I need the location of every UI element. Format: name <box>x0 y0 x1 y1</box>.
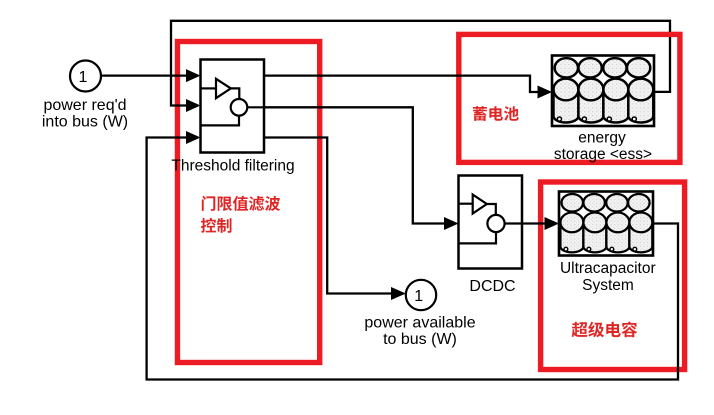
red annotation box: battery (ess) <box>459 34 680 162</box>
DCDC icon: link to circle <box>487 204 496 215</box>
block: Ultracapacitor System <box>559 192 653 256</box>
arrowhead into Ultracapacitor <box>545 217 560 230</box>
DCDC icon: triangle <box>473 195 487 214</box>
DCDC icon: feedback line <box>459 232 497 243</box>
arrowhead into Threshold in1 <box>186 69 201 82</box>
arrowhead into battery <box>538 86 553 99</box>
wire: In1 to Threshold in1 <box>102 74 189 76</box>
red text: battery <box>473 106 519 121</box>
wire: Threshold out3 to Out1 port <box>264 138 393 294</box>
wire: battery output feedback loop to Threshold in2 <box>171 21 670 106</box>
arrowhead into DCDC <box>444 217 459 230</box>
svg-text:Ultracapacitor: Ultracapacitor <box>560 260 656 277</box>
svg-text:power available: power available <box>364 315 475 332</box>
red annotation box: ultracapacitor <box>541 182 685 370</box>
svg-text:power req'd: power req'd <box>43 97 126 114</box>
wire: Threshold out2 to DCDC input <box>264 107 446 223</box>
red box overlap patch at battery loop crossing <box>668 32 671 37</box>
wire: Threshold out1 to battery input <box>264 76 539 92</box>
svg-text:storage <ess>: storage <ess> <box>554 146 652 163</box>
threshold icon: circle output line <box>247 106 264 108</box>
wire: Ultracapacitor output feedback loop to Threshold in3 <box>147 138 678 380</box>
red text: ultracapacitor <box>572 322 638 338</box>
threshold icon: input line <box>201 87 217 89</box>
svg-text:Threshold filtering: Threshold filtering <box>171 158 294 175</box>
arrowhead into Threshold in2 <box>186 99 201 112</box>
red text: threshold control line1 <box>202 196 280 211</box>
svg-text:DCDC: DCDC <box>469 278 515 295</box>
threshold icon: triangle <box>216 79 231 98</box>
arrowhead into Out1 <box>391 287 406 300</box>
svg-text:into bus (W): into bus (W) <box>42 114 128 131</box>
threshold icon: feedback line <box>201 116 240 126</box>
input port In1 circle <box>70 61 101 92</box>
wire: DCDC output to Ultracapacitor input <box>522 222 546 224</box>
battery cells icon <box>553 58 653 122</box>
ultracap cells icon <box>560 194 652 252</box>
svg-text:System: System <box>582 277 634 294</box>
svg-text:to bus (W): to bus (W) <box>383 331 457 348</box>
output port Out1 circle <box>406 280 436 310</box>
arrowhead into Threshold in3 <box>186 131 201 144</box>
block: DCDC <box>459 176 523 269</box>
svg-text:energy: energy <box>578 130 626 147</box>
red annotation box: threshold filtering control <box>177 42 319 363</box>
svg-text:1: 1 <box>78 69 87 86</box>
block: Threshold filtering <box>201 60 265 153</box>
DCDC icon: circle <box>487 215 504 232</box>
red text: threshold control line2 <box>201 218 232 233</box>
block: energy storage ess (battery) <box>552 56 654 127</box>
threshold icon: circle <box>231 99 248 116</box>
svg-text:1: 1 <box>414 288 423 305</box>
DCDC icon: circle output line <box>505 222 522 224</box>
threshold icon: link to circle <box>231 88 240 99</box>
DCDC icon: input line <box>459 203 473 205</box>
